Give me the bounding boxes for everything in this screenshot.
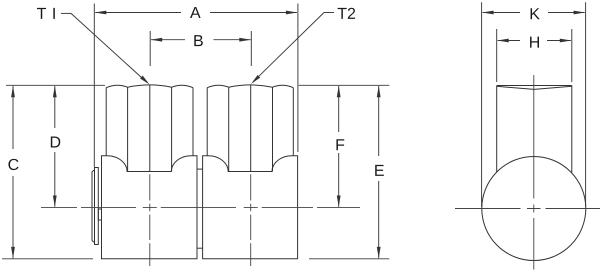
svg-text:E: E [374,163,385,180]
svg-text:K: K [529,6,540,23]
svg-text:T2: T2 [337,6,356,23]
svg-text:F: F [335,137,345,154]
svg-text:H: H [529,35,541,52]
svg-text:D: D [50,135,62,152]
svg-text:A: A [190,5,201,22]
svg-text:I: I [52,6,56,23]
svg-text:T: T [37,6,47,23]
svg-text:C: C [8,157,20,174]
svg-text:B: B [193,33,204,50]
